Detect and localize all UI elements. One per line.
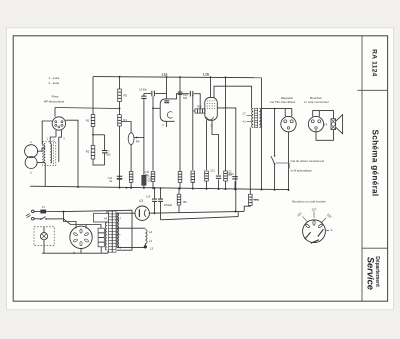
wire xyxy=(119,77,121,188)
svg-text:Prise: Prise xyxy=(52,95,59,99)
wire pin2 down xyxy=(59,135,62,163)
voltage selector detail circle xyxy=(303,220,326,243)
wire HP pin xyxy=(318,111,320,117)
resistor R5 xyxy=(118,89,122,102)
capacitor C15 xyxy=(158,198,163,200)
wire grid lead xyxy=(153,107,160,109)
wire socket pin 2 xyxy=(61,130,63,134)
wire socket top lead xyxy=(54,108,56,117)
resistor R1 xyxy=(91,115,95,127)
resistor R11 xyxy=(178,172,182,183)
svg-text:vu côté conducteur: vu côté conducteur xyxy=(304,100,329,104)
wire coil to ground rail xyxy=(44,163,46,187)
resistor R15 xyxy=(224,171,228,181)
wire jack1 to coil xyxy=(38,148,46,151)
selector bar SW xyxy=(305,232,311,239)
tap lead xyxy=(247,115,252,117)
capacitor C17 xyxy=(232,176,238,178)
tap lead xyxy=(247,121,252,123)
capacitor C12a xyxy=(178,91,183,93)
wire xyxy=(34,218,40,220)
capacitor C10 dark xyxy=(142,175,146,185)
wire to C7 xyxy=(104,135,106,151)
svg-text:50µ: 50µ xyxy=(145,174,150,177)
svg-text:{: { xyxy=(289,164,291,170)
tube L1b grid dots xyxy=(206,99,209,102)
speaker LS1 xyxy=(331,119,336,130)
sidebar title block xyxy=(361,36,363,301)
selector bar E xyxy=(318,229,324,236)
mains cord xyxy=(26,214,30,216)
resistor R12 xyxy=(195,109,205,113)
wire xyxy=(178,188,180,194)
wire xyxy=(144,244,146,248)
border frame xyxy=(13,36,387,301)
capacitor C9 xyxy=(141,95,146,97)
capacitor C13 xyxy=(189,91,191,97)
wire pickup to rail xyxy=(288,132,290,190)
wire xyxy=(154,188,156,199)
junction dots xyxy=(77,186,79,188)
resistor R3 xyxy=(118,115,122,126)
pickup connector socket xyxy=(281,116,296,131)
wire socket to node xyxy=(55,108,120,109)
svg-text:C9 50n: C9 50n xyxy=(139,89,147,92)
antenna jack circles xyxy=(25,145,38,158)
svg-text:500: 500 xyxy=(183,97,188,100)
svg-text:R1: R1 xyxy=(86,119,90,123)
svg-text:L3: L3 xyxy=(150,246,154,250)
wire pin xyxy=(284,109,286,117)
svg-text:C12: C12 xyxy=(210,170,215,173)
capacitor C14 xyxy=(152,198,157,200)
node R21 top xyxy=(178,187,180,189)
svg-text:127: 127 xyxy=(311,207,316,211)
resistor R16 xyxy=(249,194,253,205)
grid resistor R12 xyxy=(193,110,195,112)
wire xyxy=(107,251,109,254)
wire HP bottom xyxy=(316,130,334,141)
svg-text:150: 150 xyxy=(183,201,188,204)
svg-text:R12: R12 xyxy=(197,104,202,108)
svg-text:Bouchon: Bouchon xyxy=(310,96,322,100)
selector bar S xyxy=(311,240,319,243)
svg-text:RA 1124: RA 1124 xyxy=(371,49,378,77)
wire xyxy=(160,188,162,198)
svg-text:10µ: 10µ xyxy=(227,174,232,177)
svg-text:Magnétic: Magnétic xyxy=(281,96,294,100)
resistor R13 xyxy=(191,171,195,182)
svg-text:Cas du vibreur connecté par: Cas du vibreur connecté par xyxy=(291,159,325,163)
resistor R14 xyxy=(205,171,209,181)
wire pin1 to coil xyxy=(50,137,56,144)
wire xyxy=(80,249,82,254)
wire R16 to B line xyxy=(244,205,250,211)
resistor R20 xyxy=(98,228,104,247)
wire xyxy=(212,120,219,175)
wire xyxy=(160,202,162,220)
svg-text:L1a: L1a xyxy=(162,73,168,77)
capacitor C6 xyxy=(117,175,123,177)
resistor R10 xyxy=(151,172,155,182)
wire socket right lead xyxy=(66,120,79,187)
wire bottom ground rail xyxy=(30,186,289,189)
wire to R4 xyxy=(121,122,131,133)
resistor R6 xyxy=(129,172,133,183)
wire xyxy=(179,77,181,188)
transformer secondary xyxy=(116,213,118,248)
svg-text:L1b: L1b xyxy=(203,73,209,77)
svg-text:3,7: 3,7 xyxy=(242,113,246,116)
wire bottom bus xyxy=(42,252,108,254)
wire xyxy=(143,138,145,176)
wire xyxy=(46,211,64,213)
wire xyxy=(47,218,64,220)
output transformer T2 core xyxy=(255,108,258,127)
wire B+ feed line A xyxy=(149,211,244,213)
svg-text:C14: C14 xyxy=(146,196,151,199)
wire xyxy=(274,164,276,190)
wire xyxy=(43,227,45,233)
wire OT primary down xyxy=(249,128,251,195)
resistor R2 xyxy=(91,146,95,160)
tube L1a cathode xyxy=(167,112,172,118)
wire to ballast xyxy=(86,225,101,229)
wire rectifier to transformer xyxy=(117,212,135,214)
capacitor C8 line xyxy=(144,93,151,95)
svg-text:2 . série: 2 . série xyxy=(49,81,60,85)
wire feed line B xyxy=(161,217,239,220)
wire branch C7 xyxy=(93,134,105,136)
HP connector plug xyxy=(308,116,323,131)
svg-text:4,1: 4,1 xyxy=(242,120,246,123)
wire jack2 to coil xyxy=(37,162,45,164)
wire xyxy=(274,109,276,156)
wire top B+ rail xyxy=(93,77,262,78)
wire xyxy=(237,212,239,217)
wire xyxy=(43,240,45,246)
svg-text:vue TSF côté câbleur: vue TSF côté câbleur xyxy=(270,100,296,104)
antenna coil T1 (dashed box) xyxy=(43,142,56,166)
svg-text:Service: Service xyxy=(366,257,376,290)
wire to socket 2 xyxy=(64,219,87,227)
filament xyxy=(138,209,140,217)
tube L1b envelope xyxy=(205,97,218,120)
fuse F1 xyxy=(41,210,46,213)
OT secondary winding xyxy=(259,108,261,127)
capacitor C8 xyxy=(151,91,153,97)
wire tube2 plate to OT xyxy=(214,86,252,108)
wire primary feed around transformer xyxy=(64,210,133,250)
junction box 44 xyxy=(94,213,109,222)
wire xyxy=(143,94,145,96)
wire rail end down / OT secondary xyxy=(261,78,263,190)
wire secondary bottom link xyxy=(117,249,132,251)
wire socket left lead xyxy=(42,121,52,145)
svg-text:1 . extra: 1 . extra xyxy=(49,76,60,80)
wire socket pin 1 xyxy=(55,130,57,137)
wire pickup feed xyxy=(262,108,293,110)
tube L1b cathode xyxy=(207,117,214,120)
wire xyxy=(192,94,194,170)
tube L1a grid xyxy=(164,100,169,102)
mains plug P1 xyxy=(32,210,35,213)
wire pin xyxy=(75,227,77,229)
wire tube grid to rail xyxy=(166,77,168,99)
wire xyxy=(34,210,41,212)
resistor R21 xyxy=(177,194,181,205)
wire C7 down xyxy=(104,153,106,165)
wire tube2 grid xyxy=(210,77,212,97)
wire pin xyxy=(291,109,293,117)
wire to R4 node xyxy=(134,137,144,139)
wire xyxy=(154,202,156,214)
rectifier tube LO xyxy=(135,206,149,220)
wire xyxy=(117,227,145,229)
wire left vertical xyxy=(92,77,94,166)
svg-text:R5: R5 xyxy=(124,94,128,98)
tube socket X1 (top view) xyxy=(52,117,65,130)
speaker horn xyxy=(336,115,343,134)
capacitors C14 C15 xyxy=(154,187,156,189)
oval resistor R4 xyxy=(128,133,134,145)
voltage selector socket xyxy=(70,226,92,248)
wire primary top stub xyxy=(106,211,108,214)
wire xyxy=(225,77,227,171)
pilot lamp (dashed box) xyxy=(34,227,54,246)
transformer primary xyxy=(105,214,107,251)
svg-text:R4: R4 xyxy=(136,140,140,144)
wire to socket xyxy=(64,212,77,227)
svg-text:R2: R2 xyxy=(86,150,90,154)
power transformer T3 core xyxy=(109,211,113,252)
wire pin xyxy=(85,227,87,229)
wire tube2 to PSU xyxy=(217,108,236,212)
wire xyxy=(43,246,45,254)
wire xyxy=(178,205,180,213)
svg-text:LO: LO xyxy=(139,199,144,203)
wire HP top xyxy=(313,111,334,119)
pilot lamp xyxy=(40,233,47,240)
svg-text:L1: L1 xyxy=(149,239,153,243)
capacitor C7 xyxy=(102,150,107,152)
svg-text:2x50µF: 2x50µF xyxy=(164,204,173,207)
wire xyxy=(117,246,145,248)
tube L1a envelope xyxy=(160,99,175,121)
OT primary winding xyxy=(252,108,254,127)
capacitor C12 xyxy=(216,175,221,177)
svg-text:Schéma général: Schéma général xyxy=(370,129,379,196)
wire xyxy=(152,96,154,170)
switch blade xyxy=(271,156,275,164)
coupling capacitor C13 xyxy=(175,94,190,99)
capacitor C14 electrolytic xyxy=(234,181,236,189)
wire xyxy=(100,247,102,253)
leader xyxy=(276,162,289,164)
svg-text:L2: L2 xyxy=(149,230,153,234)
svg-text:Bouchon vu côté broche: Bouchon vu côté broche xyxy=(292,200,326,204)
wire cathode stub xyxy=(166,121,168,127)
switch blade xyxy=(42,217,46,219)
svg-text:HP électrodyne: HP électrodyne xyxy=(44,100,65,104)
wire xyxy=(206,120,208,170)
svg-text:un fil automatique: un fil automatique xyxy=(291,169,313,173)
wire branch bottom xyxy=(93,164,105,166)
svg-text:500: 500 xyxy=(106,153,111,156)
wire R4 down xyxy=(130,145,132,172)
wire C9 down xyxy=(143,99,145,138)
